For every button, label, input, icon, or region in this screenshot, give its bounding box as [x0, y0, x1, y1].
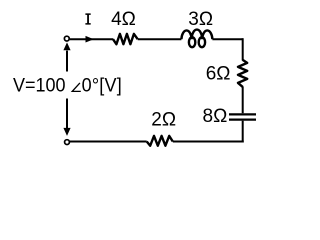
wire bottom-right from corner to 2Ω resistor — [173, 141, 244, 143]
wire top-right corner down to 6Ω resistor — [212, 39, 241, 40]
inductor 3Ω loop 1 — [189, 37, 195, 47]
svg-text:6Ω: 6Ω — [206, 64, 231, 85]
svg-text:4Ω: 4Ω — [111, 9, 136, 30]
svg-text:V=100: V=100 — [13, 74, 66, 96]
capacitor 8Ω bottom plate — [229, 118, 256, 120]
svg-text:2Ω: 2Ω — [151, 110, 176, 131]
angle symbol of phasor notation — [72, 83, 81, 92]
inductor 3Ω arches — [181, 30, 212, 40]
svg-text:0°[V]: 0°[V] — [82, 74, 122, 96]
capacitor 8Ω top plate — [229, 113, 256, 115]
wire right below capacitor to bottom corner — [242, 121, 244, 143]
voltage arrow lower shaft — [66, 99, 68, 129]
voltage arrow upper head (points up at top terminal) — [63, 42, 70, 50]
wire right between 6Ω and capacitor — [242, 87, 244, 114]
label I — [85, 13, 90, 24]
voltage source top terminal — [64, 36, 69, 41]
voltage source bottom terminal — [65, 140, 70, 145]
voltage arrow lower head (points down at bottom terminal) — [63, 128, 70, 136]
svg-text:8Ω: 8Ω — [203, 106, 228, 127]
current arrow I on top wire — [86, 36, 94, 43]
wire top middle between 4Ω resistor and 3Ω inductor — [138, 38, 182, 40]
inductor 3Ω loop 2 — [199, 37, 205, 47]
resistor 6Ω (vertical) — [238, 60, 247, 87]
voltage arrow upper shaft — [66, 51, 68, 72]
resistor 4Ω — [113, 34, 138, 44]
resistor 2Ω — [147, 136, 173, 146]
svg-text:3Ω: 3Ω — [188, 9, 213, 30]
wire bottom-left from 2Ω resistor to bottom terminal — [70, 141, 147, 143]
wire top-left from terminal to 4Ω resistor — [70, 38, 114, 40]
